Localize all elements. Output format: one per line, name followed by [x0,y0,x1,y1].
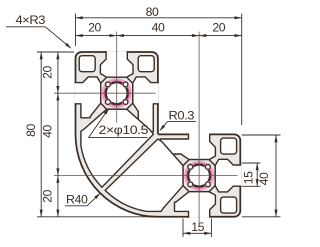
svg-text:40: 40 [41,125,55,138]
upper 40x40 square internals [75,51,159,187]
dimension 80 (top overall width) [76,17,242,19]
dimension 40 (right side height) [275,135,277,217]
svg-text:20: 20 [88,21,101,35]
profile outline: L-extrusion silhouette with R40 outer arc [76,52,241,217]
svg-text:R0.3: R0.3 [169,109,195,123]
T-slot cavity, right face of lower square [160,133,215,159]
corner cavity, top-right of lower square [221,138,237,154]
svg-text:15: 15 [191,220,204,234]
svg-text:20: 20 [41,66,55,79]
centerline horizontal, lower square / extension to left dims [54,175,238,177]
T-slot cavity, top face of upper square [100,51,133,77]
svg-text:15: 15 [241,171,255,184]
center hub (lower square) [183,160,215,192]
T-slot cavity, top face of lower square [215,159,241,192]
extension line, profile right edge [241,14,243,126]
svg-text:2×φ10.5: 2×φ10.5 [99,123,149,137]
center hole 10.5 dia, pink highlighted (upper square) [104,81,129,106]
centerline vertical, upper square [116,32,118,123]
extension line, profile bottom edge (right) [242,216,281,218]
corner cavity, top-right of upper square [138,56,154,72]
dimension row 20/40/20 (top) [76,35,242,37]
dimension 15 (right side) [256,163,258,186]
svg-text:4×R3: 4×R3 [16,13,46,27]
center hole 10.5 dia, pink highlighted (lower square) [187,163,212,188]
corner cavity, top-left of lower square [221,197,237,213]
centerline horizontal, upper square [54,92,156,94]
dimension 80 (left overall height) [40,52,42,217]
svg-text:40: 40 [152,21,165,35]
dimension 15 (bottom) [183,232,211,234]
corner cavity, top-left of upper square [79,56,95,72]
svg-text:80: 80 [146,5,159,19]
extension line, profile top edge (left) [37,51,74,53]
extension lines for 15 (bottom) [182,219,184,237]
extension line, lower square top edge (right) [242,134,281,136]
svg-text:20: 20 [212,21,225,35]
svg-text:40: 40 [257,172,271,185]
extension lines for 15 (right side) [242,162,261,164]
T-slot cavity, right face of upper square [133,77,159,132]
quarter-ring cavity (lower cell) [105,139,183,212]
T-slot cavity, left face of upper square [75,77,101,118]
svg-text:R40: R40 [66,193,88,207]
center hub (upper square) [101,77,133,109]
extension line, profile bottom edge (left) [37,216,157,218]
svg-text:80: 80 [24,124,38,137]
lower 40x40 square internals (mirrored copy) [105,133,241,217]
centerline vertical, lower square / extension to top dims [198,32,200,222]
dimension row 20/40/20 (left) [57,52,59,217]
svg-text:20: 20 [41,189,55,202]
quarter-ring cavity (upper cell) [81,109,153,187]
extension line, profile left edge (top) [75,14,77,47]
T-slot cavity, left face of lower square [174,192,215,218]
